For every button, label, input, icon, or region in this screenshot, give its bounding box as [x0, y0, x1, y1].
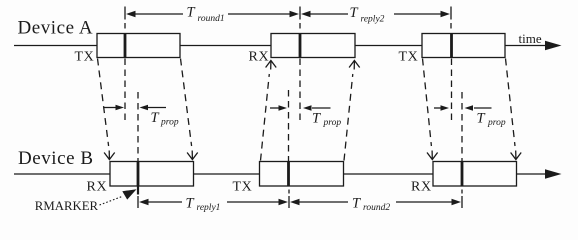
- marker bar A1: [124, 34, 127, 58]
- svg-text:round2: round2: [363, 203, 390, 213]
- RMARKER pointer arrowhead: [122, 189, 136, 199]
- dimension T_round2: [290, 196, 461, 214]
- time axis arrowhead B: [545, 169, 562, 179]
- marker bar B3: [461, 162, 464, 187]
- svg-text:RX: RX: [249, 50, 270, 65]
- propagation line B2 left edge to A2: [261, 61, 277, 161]
- propagation line A1 left edge to B1: [98, 59, 115, 160]
- dashed tick above B marker 2: [288, 90, 290, 161]
- marker bar A3: [450, 34, 453, 58]
- label RX B3: [411, 180, 432, 195]
- dashed tick above B marker 1: [137, 92, 139, 161]
- tick at A marker 1 (top): [124, 7, 126, 29]
- svg-text:T: T: [352, 196, 361, 212]
- svg-text:T: T: [477, 111, 486, 127]
- time axis arrowhead A: [545, 41, 562, 51]
- box A1 TX frame: [97, 34, 180, 58]
- marker bar B1: [137, 162, 140, 187]
- svg-text:round1: round1: [198, 14, 225, 24]
- box B1 RX frame: [110, 162, 194, 187]
- RMARKER pointer dotted line: [100, 197, 123, 206]
- dashed tick below A marker 3: [451, 59, 453, 124]
- box A3 TX frame: [422, 34, 505, 58]
- dimension T_prop 2: [270, 105, 341, 128]
- svg-text:T: T: [151, 110, 160, 126]
- dashed tick above B marker 3: [461, 92, 463, 161]
- dimension T_prop 1: [104, 105, 179, 128]
- propagation line A3 left edge to B3: [423, 59, 438, 160]
- box B3 RX frame: [433, 162, 517, 187]
- dimension T_reply2: [301, 5, 450, 25]
- tick at A marker 3 (top): [450, 7, 452, 29]
- device B label: [18, 148, 94, 169]
- svg-text:prop: prop: [323, 118, 342, 128]
- tick at B marker 3 (bottom): [461, 190, 463, 209]
- dashed tick below A marker 1: [124, 59, 126, 124]
- marker bar B2: [287, 162, 290, 187]
- dimension T_round1: [126, 5, 299, 25]
- svg-text:RX: RX: [87, 180, 108, 195]
- svg-text:TX: TX: [233, 180, 253, 195]
- tick at B marker 2 (bottom): [288, 190, 290, 209]
- label TX A1: [75, 50, 95, 65]
- box B2 TX frame: [260, 162, 344, 187]
- tick at B marker 1 (bottom): [137, 196, 139, 208]
- label TX A3: [399, 50, 419, 65]
- svg-text:T: T: [312, 111, 321, 127]
- box A2 RX frame: [271, 34, 355, 58]
- svg-text:reply2: reply2: [361, 15, 385, 25]
- svg-text:TX: TX: [75, 50, 95, 65]
- marker bar A2: [299, 34, 302, 58]
- propagation line B2 right edge to A2: [344, 61, 360, 161]
- propagation line A1 right edge to B1: [181, 59, 198, 160]
- dashed tick below A marker 2: [299, 59, 301, 121]
- svg-text:time: time: [519, 31, 542, 46]
- svg-text:prop: prop: [487, 118, 506, 128]
- svg-text:T: T: [350, 5, 359, 21]
- tick at A marker 2 (top): [299, 7, 301, 29]
- label RX A2: [249, 50, 270, 65]
- dimension T_prop 3: [434, 105, 506, 128]
- svg-text:RMARKER: RMARKER: [35, 199, 99, 213]
- svg-text:prop: prop: [160, 118, 179, 128]
- svg-text:reply1: reply1: [197, 203, 221, 213]
- device A label: [18, 18, 94, 39]
- svg-text:Device B: Device B: [18, 148, 94, 169]
- RMARKER label: [35, 199, 99, 213]
- timeline A: [14, 45, 548, 47]
- dimension T_reply1: [139, 196, 288, 214]
- propagation line A3 right edge to B3: [506, 59, 522, 160]
- time label: [519, 31, 542, 46]
- svg-text:Device A: Device A: [18, 18, 94, 39]
- label TX B2: [233, 180, 253, 195]
- svg-text:T: T: [186, 196, 195, 212]
- svg-text:TX: TX: [399, 50, 419, 65]
- timeline B: [14, 173, 548, 175]
- label RX B1: [87, 180, 108, 195]
- svg-text:RX: RX: [411, 180, 432, 195]
- svg-text:T: T: [187, 5, 196, 21]
